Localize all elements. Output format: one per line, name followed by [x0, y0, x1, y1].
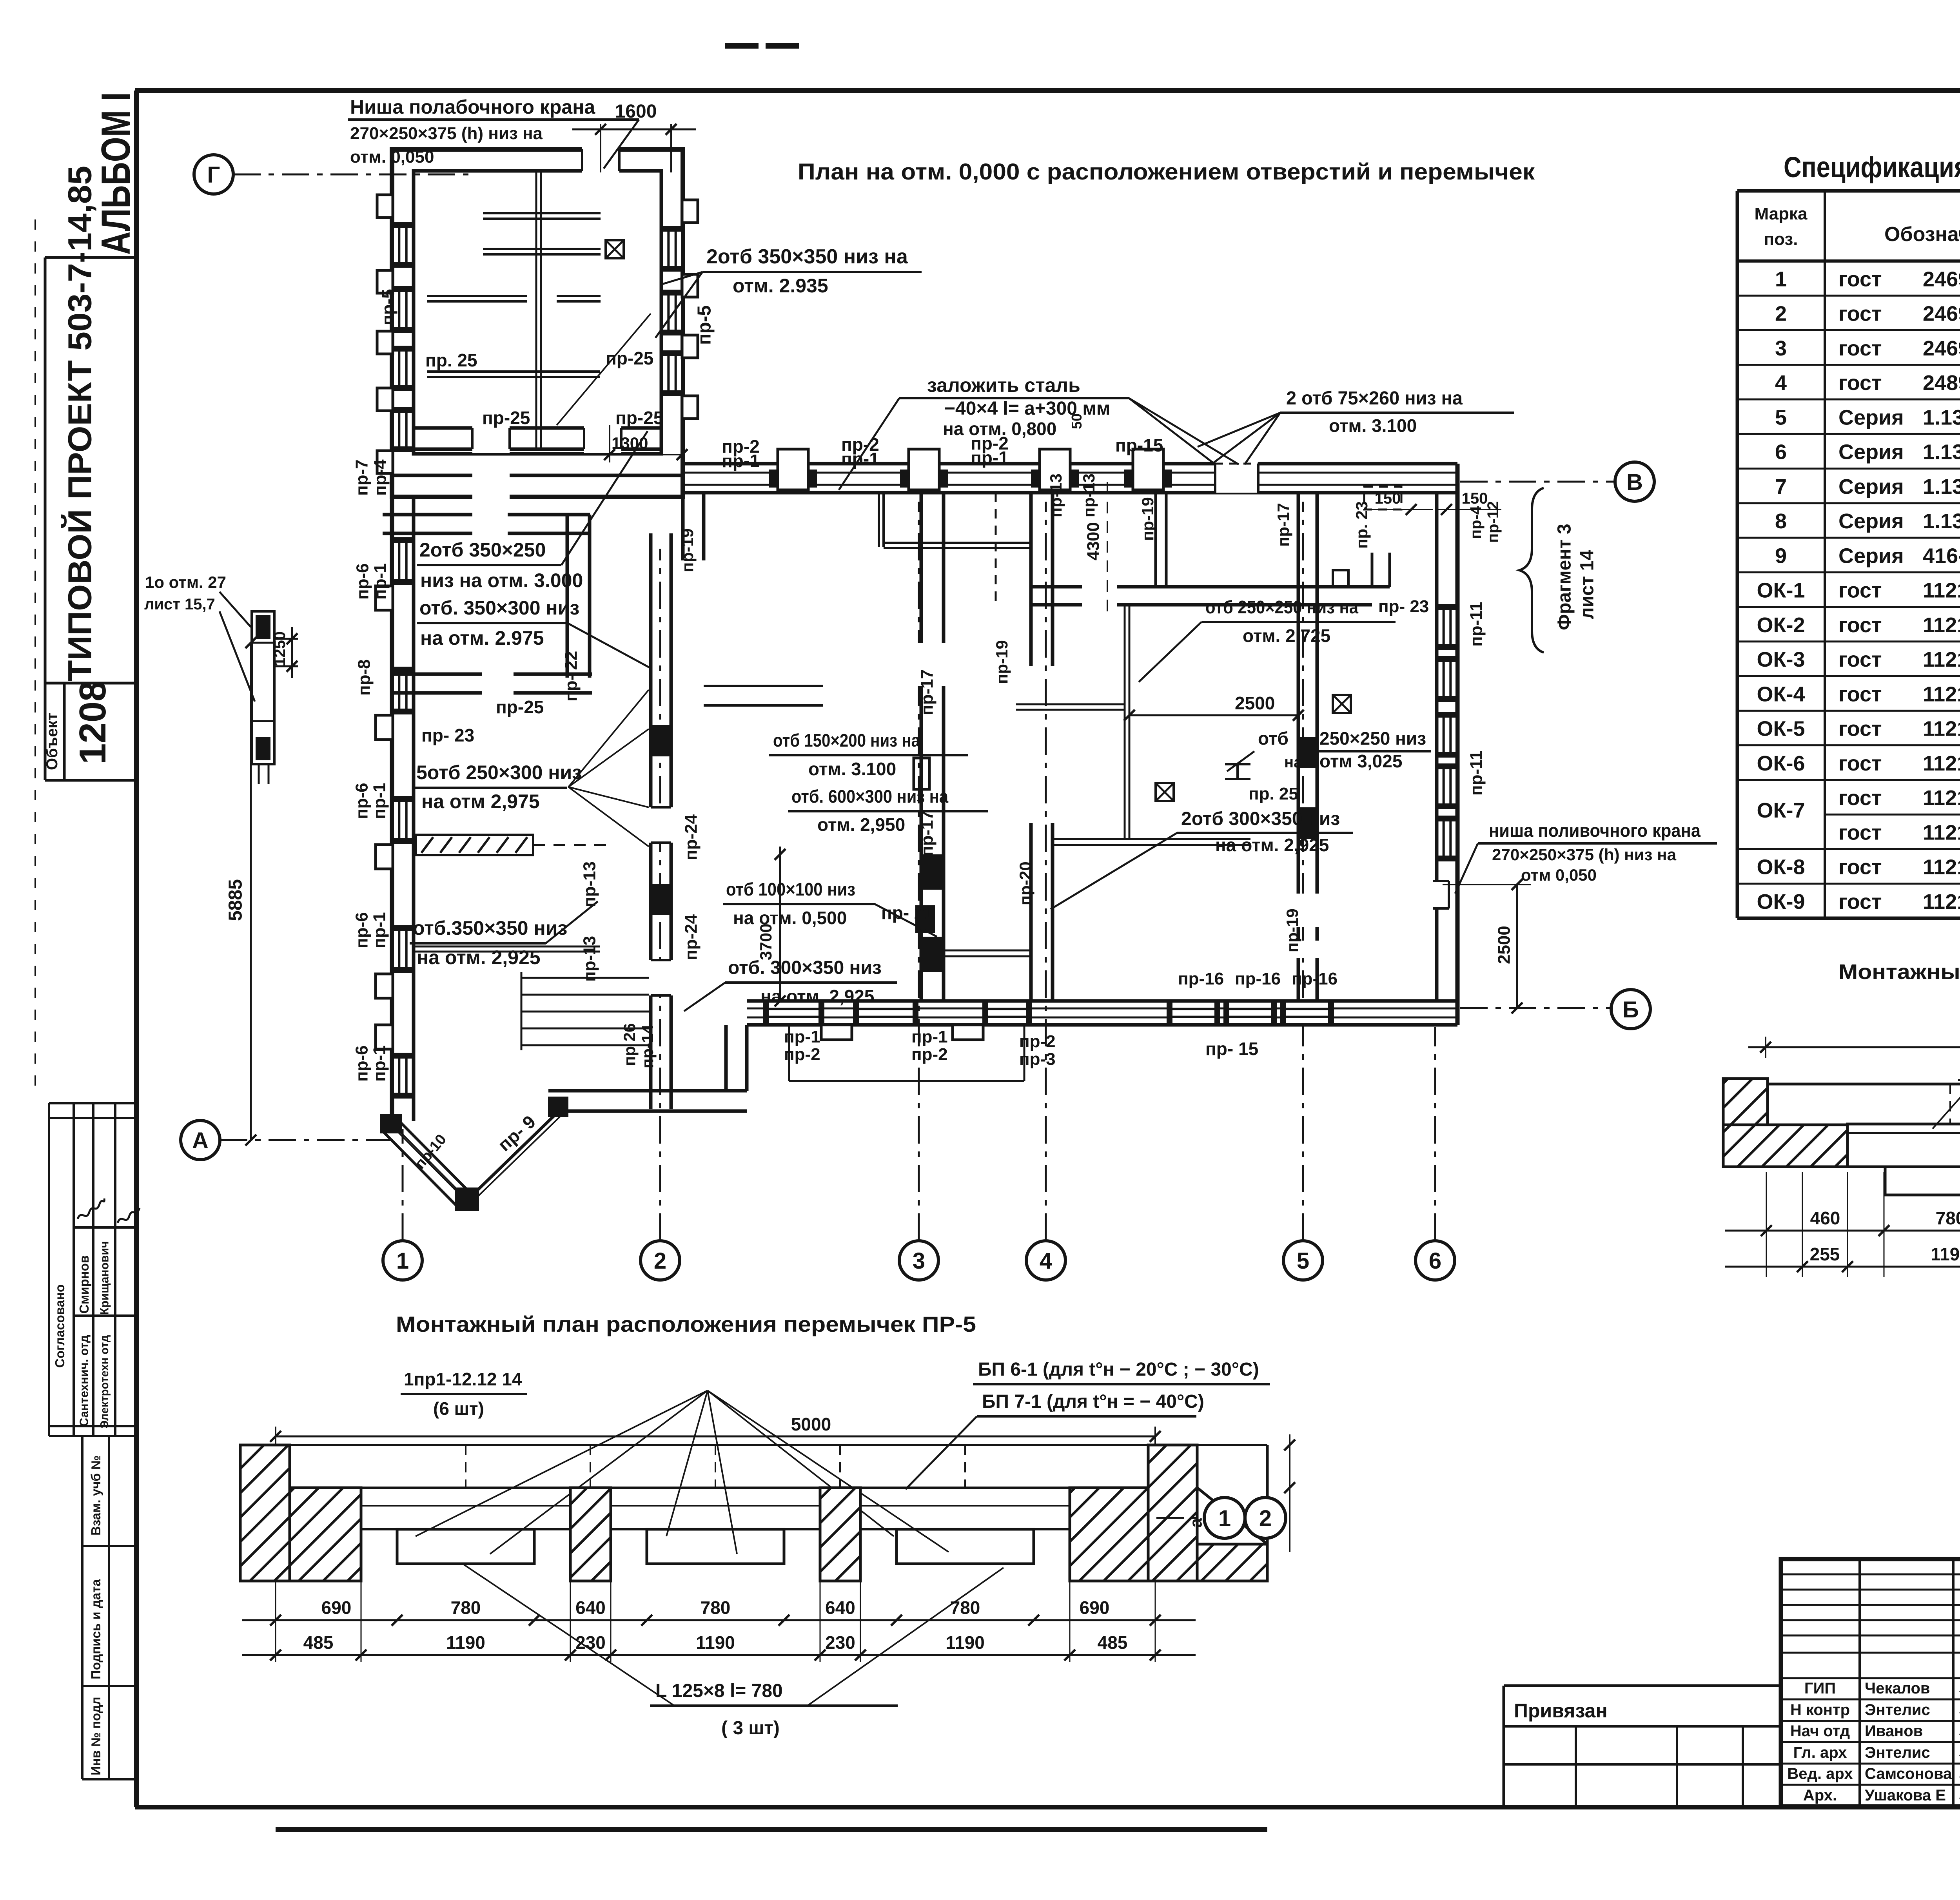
svg-text:пр-19: пр-19	[993, 640, 1011, 684]
svg-text:3: 3	[1775, 337, 1787, 360]
svg-text:пр-6: пр-6	[352, 912, 372, 948]
svg-text:230: 230	[825, 1632, 855, 1653]
svg-text:гост: гост	[1838, 267, 1882, 291]
svg-text:Монтажный план расположения: Монтажный план расположения перемычек ПР…	[396, 1312, 976, 1336]
svg-text:пр- 23: пр- 23	[421, 725, 474, 745]
svg-text:отм 3,025: отм 3,025	[1319, 751, 1402, 771]
svg-text:пр. 25: пр. 25	[425, 350, 477, 370]
svg-text:(6 шт): (6 шт)	[433, 1398, 484, 1419]
svg-text:Г: Г	[207, 162, 220, 188]
svg-text:пр-14: пр-14	[638, 1024, 657, 1068]
svg-text:Согласовано: Согласовано	[53, 1284, 67, 1368]
svg-text:пр-13: пр-13	[580, 936, 599, 982]
svg-text:780: 780	[950, 1597, 980, 1618]
svg-text:гост: гост	[1838, 613, 1882, 637]
svg-text:пр-4: пр-4	[371, 459, 390, 496]
svg-text:1600: 1600	[615, 101, 657, 122]
svg-text:ОК-4: ОК-4	[1757, 682, 1805, 706]
svg-text:пр-1: пр-1	[722, 451, 760, 471]
svg-text:отб 150×200 низ на: отб 150×200 низ на	[773, 730, 920, 751]
svg-text:пр-8: пр-8	[355, 659, 374, 696]
svg-text:на отм. 2.975: на отм. 2.975	[420, 627, 544, 649]
svg-text:Крищанович: Крищанович	[98, 1241, 111, 1315]
svg-text:640: 640	[825, 1597, 855, 1618]
svg-text:отм. 3.100: отм. 3.100	[1329, 415, 1417, 436]
svg-text:Ушакова Е: Ушакова Е	[1865, 1787, 1946, 1804]
svg-text:1.136 - 10: 1.136 - 10	[1923, 441, 1960, 464]
svg-text:пр-1: пр-1	[911, 1027, 948, 1046]
svg-text:Серия: Серия	[1838, 509, 1904, 533]
svg-text:пр-1: пр-1	[370, 1045, 389, 1082]
svg-text:7: 7	[1775, 475, 1787, 499]
svg-text:5отб 250×300 низ: 5отб 250×300 низ	[416, 761, 582, 783]
svg-text:4: 4	[1040, 1248, 1052, 1274]
svg-text:отб 250×250 низ на: отб 250×250 низ на	[1205, 597, 1358, 617]
svg-text:780: 780	[701, 1597, 731, 1618]
svg-text:лист 15,7: лист 15,7	[144, 596, 215, 613]
svg-text:4300: 4300	[1084, 522, 1103, 560]
svg-text:ГИП: ГИП	[1804, 1680, 1836, 1697]
svg-text:пр-16: пр-16	[1178, 969, 1224, 988]
svg-text:на отм. 0,800: на отм. 0,800	[943, 419, 1056, 439]
svg-text:1о отм. 27: 1о отм. 27	[145, 573, 226, 591]
svg-text:пр-19: пр-19	[678, 528, 697, 572]
svg-text:6: 6	[1429, 1248, 1441, 1274]
svg-text:пр-3: пр-3	[1019, 1050, 1056, 1069]
svg-text:План на отм. 0,000 с расположе: План на отм. 0,000 с расположением отвер…	[798, 159, 1535, 185]
svg-text:ОК-3: ОК-3	[1757, 648, 1805, 671]
svg-text:2: 2	[1775, 302, 1787, 326]
svg-text:1190: 1190	[446, 1632, 485, 1653]
svg-text:2: 2	[654, 1248, 666, 1274]
svg-text:пр-2: пр-2	[1019, 1032, 1056, 1051]
svg-text:ОК-1: ОК-1	[1757, 579, 1805, 602]
svg-text:Энтелис: Энтелис	[1865, 1701, 1930, 1719]
svg-text:5: 5	[1775, 406, 1787, 429]
svg-text:пр-17: пр-17	[918, 810, 937, 856]
svg-text:−40×4 l= a+300 мм: −40×4 l= a+300 мм	[944, 398, 1110, 419]
svg-text:пр-1: пр-1	[971, 448, 1009, 468]
svg-text:1190: 1190	[696, 1632, 735, 1653]
svg-text:пр-20: пр-20	[1016, 861, 1034, 905]
svg-text:поз.: поз.	[1764, 230, 1798, 249]
svg-text:гост: гост	[1838, 648, 1882, 671]
svg-text:Фрагмент 3: Фрагмент 3	[1554, 524, 1575, 630]
svg-text:пр-19: пр-19	[1283, 908, 1301, 952]
svg-text:780: 780	[1936, 1208, 1960, 1228]
svg-text:БП 7-1 (для t°н = − 40°С): БП 7-1 (для t°н = − 40°С)	[982, 1391, 1204, 1412]
svg-text:1190: 1190	[1931, 1244, 1960, 1264]
svg-text:Монтажный план расположения: Монтажный план расположения перемычек ПР…	[1838, 960, 1960, 984]
svg-text:1208: 1208	[72, 680, 114, 764]
svg-text:ОК-7: ОК-7	[1757, 799, 1805, 822]
svg-text:11214 - 78: 11214 - 78	[1923, 752, 1960, 775]
svg-text:11214 - 78: 11214 - 78	[1923, 717, 1960, 741]
svg-text:2: 2	[1259, 1506, 1272, 1531]
svg-text:пр. 23: пр. 23	[1352, 501, 1371, 549]
svg-text:пр- 21: пр- 21	[881, 903, 934, 923]
svg-text:пр-13: пр-13	[1047, 473, 1065, 517]
svg-text:пр-1: пр-1	[371, 563, 390, 600]
svg-text:пр-6: пр-6	[353, 563, 372, 600]
svg-text:Арх.: Арх.	[1803, 1787, 1837, 1804]
svg-text:отб. 300×350 низ: отб. 300×350 низ	[728, 957, 882, 978]
svg-text:пр-2: пр-2	[784, 1045, 820, 1064]
svg-text:4: 4	[1775, 371, 1787, 395]
svg-text:гост: гост	[1838, 890, 1882, 914]
svg-text:пр-24: пр-24	[682, 914, 701, 960]
svg-text:250×250 низ: 250×250 низ	[1319, 728, 1426, 749]
svg-text:5: 5	[1297, 1248, 1309, 1274]
svg-text:пр-11: пр-11	[1467, 602, 1486, 647]
svg-text:1.136 - 10: 1.136 - 10	[1923, 509, 1960, 533]
svg-text:отм. 2.935: отм. 2.935	[733, 275, 828, 297]
svg-text:пр- 23: пр- 23	[1378, 597, 1429, 616]
svg-text:гост: гост	[1838, 786, 1882, 810]
svg-text:ОК-2: ОК-2	[1757, 613, 1805, 637]
svg-text:3700: 3700	[757, 924, 775, 960]
svg-text:640: 640	[575, 1597, 606, 1618]
svg-text:отм. 3.100: отм. 3.100	[808, 759, 896, 779]
svg-text:отб. 600×300 низ на: отб. 600×300 низ на	[791, 786, 948, 807]
svg-text:24698 - 81: 24698 - 81	[1923, 267, 1960, 291]
svg-text:пр-1: пр-1	[784, 1027, 820, 1046]
svg-text:24698 - 81: 24698 - 81	[1923, 302, 1960, 326]
svg-text:1.136 - 10: 1.136 - 10	[1923, 406, 1960, 429]
svg-text:гост: гост	[1838, 682, 1882, 706]
svg-text:заложить сталь: заложить сталь	[927, 374, 1080, 396]
svg-text:2500: 2500	[1495, 926, 1514, 964]
svg-text:отб 100×100 низ: отб 100×100 низ	[726, 879, 855, 899]
svg-text:гост: гост	[1838, 856, 1882, 879]
svg-text:Нач отд: Нач отд	[1790, 1722, 1850, 1740]
svg-text:отб: отб	[1258, 728, 1289, 749]
svg-text:на отм. 2,925: на отм. 2,925	[1215, 835, 1329, 855]
svg-text:пр-5: пр-5	[694, 305, 715, 345]
svg-text:1: 1	[396, 1248, 409, 1274]
svg-text:ОК-6: ОК-6	[1757, 752, 1805, 775]
svg-text:690: 690	[1080, 1597, 1110, 1618]
svg-text:АЛЬБОМ I: АЛЬБОМ I	[93, 92, 139, 255]
svg-text:1300: 1300	[612, 434, 648, 452]
svg-text:460: 460	[1810, 1208, 1840, 1228]
svg-text:11214 - 78: 11214 - 78	[1923, 682, 1960, 706]
svg-text:отм. 0,050: отм. 0,050	[350, 147, 434, 167]
svg-text:270×250×375 (h) низ на: 270×250×375 (h) низ на	[350, 124, 543, 143]
svg-text:Гл. арх: Гл. арх	[1793, 1744, 1847, 1761]
svg-text:Спецификация элементов зап: Спецификация элементов заполнения проемо…	[1784, 151, 1960, 183]
svg-text:11214 - 78: 11214 - 78	[1923, 890, 1960, 914]
svg-text:2отб 350×350 низ на: 2отб 350×350 низ на	[706, 245, 908, 268]
svg-text:Иванов: Иванов	[1865, 1722, 1923, 1740]
svg-text:пр-2: пр-2	[911, 1045, 948, 1064]
svg-text:пр-13: пр-13	[1080, 473, 1098, 517]
svg-text:Серия: Серия	[1838, 544, 1904, 567]
svg-text:270×250×375 (h) низ на: 270×250×375 (h) низ на	[1492, 845, 1677, 864]
svg-text:отм 0,050: отм 0,050	[1521, 866, 1597, 884]
svg-text:пр-11: пр-11	[1467, 751, 1486, 796]
svg-text:пр 26: пр 26	[620, 1023, 639, 1066]
svg-text:5000: 5000	[791, 1414, 831, 1434]
svg-text:ОК-9: ОК-9	[1757, 890, 1805, 914]
svg-text:пр-6: пр-6	[352, 1045, 372, 1082]
svg-text:В: В	[1626, 470, 1643, 495]
svg-text:9: 9	[1775, 544, 1787, 567]
svg-text:гост: гост	[1838, 337, 1882, 360]
svg-text:Объект: Объект	[44, 713, 61, 770]
svg-text:Обозначение: Обозначение	[1884, 223, 1960, 246]
svg-text:Энтелис: Энтелис	[1865, 1744, 1930, 1761]
svg-text:5885: 5885	[225, 879, 246, 921]
svg-text:11214 - 78: 11214 - 78	[1923, 856, 1960, 879]
svg-text:на: на	[1284, 754, 1303, 771]
svg-text:416-0-1 ал.7: 416-0-1 ал.7	[1923, 544, 1960, 567]
svg-text:Марка: Марка	[1754, 204, 1808, 223]
svg-text:255: 255	[1810, 1244, 1840, 1264]
svg-text:пр-25: пр-25	[615, 408, 663, 428]
svg-text:отм. 2.725: отм. 2.725	[1243, 625, 1330, 646]
svg-text:пр-6: пр-6	[352, 783, 372, 819]
svg-text:пр-19: пр-19	[1138, 497, 1157, 541]
svg-text:485: 485	[1098, 1632, 1128, 1653]
svg-text:485: 485	[303, 1632, 334, 1653]
svg-text:пр-5: пр-5	[379, 289, 398, 325]
svg-text:на отм. 2,925: на отм. 2,925	[417, 946, 541, 968]
svg-text:24698 - 81: 24698 - 81	[1923, 337, 1960, 360]
svg-text:L 125×8 l= 780: L 125×8 l= 780	[655, 1681, 783, 1701]
svg-text:Чекалов: Чекалов	[1865, 1680, 1930, 1697]
svg-text:2отб 300×350 низ: 2отб 300×350 низ	[1181, 809, 1340, 829]
svg-text:11214 - 78: 11214 - 78	[1923, 821, 1960, 844]
svg-text:пр-1: пр-1	[370, 912, 389, 948]
svg-text:1.136 - 10: 1.136 - 10	[1923, 475, 1960, 499]
svg-text:1: 1	[1218, 1506, 1231, 1531]
svg-text:690: 690	[321, 1597, 352, 1618]
svg-text:Электротехн отд: Электротехн отд	[98, 1335, 111, 1429]
svg-text:Ниша полабочного крана: Ниша полабочного крана	[350, 96, 595, 118]
svg-text:Н контр: Н контр	[1790, 1701, 1850, 1719]
svg-text:( 3 шт): ( 3 шт)	[721, 1718, 780, 1739]
svg-text:пр-16: пр-16	[1235, 969, 1281, 988]
svg-text:6: 6	[1775, 441, 1787, 464]
svg-text:пр-25: пр-25	[482, 408, 530, 428]
svg-text:пр-7: пр-7	[352, 459, 372, 496]
svg-text:1пр1-12.12 14: 1пр1-12.12 14	[404, 1369, 522, 1389]
svg-text:гост: гост	[1838, 579, 1882, 602]
svg-text:пр-17: пр-17	[918, 669, 937, 715]
svg-text:Привязан: Привязан	[1514, 1700, 1608, 1722]
svg-text:низ на отм. 3.000: низ на отм. 3.000	[420, 569, 583, 591]
svg-text:гост: гост	[1838, 717, 1882, 741]
svg-text:11214 - 78: 11214 - 78	[1923, 613, 1960, 637]
svg-text:3: 3	[913, 1248, 925, 1274]
svg-text:гост: гост	[1838, 821, 1882, 844]
svg-text:отм. 2,950: отм. 2,950	[817, 814, 905, 835]
svg-text:а: а	[1187, 1518, 1206, 1528]
svg-text:Вед. арх: Вед. арх	[1787, 1765, 1853, 1782]
svg-text:Взам. учб №: Взам. учб №	[89, 1455, 103, 1536]
svg-text:2отб 350×250: 2отб 350×250	[419, 539, 546, 561]
svg-text:пр-4: пр-4	[1467, 506, 1485, 539]
svg-text:24898 - 81: 24898 - 81	[1923, 371, 1960, 395]
svg-text:Самсонова: Самсонова	[1865, 1765, 1952, 1782]
svg-text:Подпись и дата: Подпись и дата	[89, 1579, 103, 1679]
svg-text:11214 - 78: 11214 - 78	[1923, 786, 1960, 810]
svg-text:А: А	[192, 1128, 209, 1153]
svg-text:пр- 22: пр- 22	[562, 651, 581, 702]
svg-text:пр-16: пр-16	[1292, 969, 1338, 988]
svg-text:2500: 2500	[1235, 693, 1275, 713]
svg-text:Смирнов: Смирнов	[77, 1255, 91, 1314]
svg-text:Сантехнич. отд: Сантехнич. отд	[77, 1335, 91, 1427]
svg-text:2 отб 75×260 низ на: 2 отб 75×260 низ на	[1286, 388, 1463, 409]
svg-text:ниша поливочного крана: ниша поливочного крана	[1489, 820, 1700, 841]
svg-text:на отм. 0,500: на отм. 0,500	[733, 908, 847, 928]
svg-text:1: 1	[1775, 267, 1787, 291]
svg-text:150: 150	[1462, 490, 1488, 507]
svg-text:150: 150	[1375, 490, 1401, 507]
svg-text:пр. 25: пр. 25	[1249, 784, 1298, 803]
svg-text:пр-25: пр-25	[496, 697, 544, 717]
svg-text:лист 14: лист 14	[1577, 550, 1598, 619]
svg-text:Серия: Серия	[1838, 441, 1904, 464]
svg-text:11214 - 78: 11214 - 78	[1923, 579, 1960, 602]
svg-text:Серия: Серия	[1838, 406, 1904, 429]
svg-text:гост: гост	[1838, 752, 1882, 775]
svg-text:пр-24: пр-24	[682, 814, 701, 860]
svg-text:отб.350×350 низ: отб.350×350 низ	[413, 917, 567, 939]
svg-text:пр-12: пр-12	[1485, 501, 1502, 543]
svg-text:11214 - 78: 11214 - 78	[1923, 648, 1960, 671]
svg-text:Инв № подл: Инв № подл	[89, 1697, 103, 1775]
svg-text:БП 6-1 (для t°н − 20°С ; − 30: БП 6-1 (для t°н − 20°С ; − 30°С)	[978, 1359, 1259, 1380]
svg-text:ОК-8: ОК-8	[1757, 856, 1805, 879]
svg-text:гост: гост	[1838, 371, 1882, 395]
svg-text:ТИПОВОЙ ПРОЕКТ 503-7-14,85: ТИПОВОЙ ПРОЕКТ 503-7-14,85	[61, 166, 98, 681]
svg-text:пр-1: пр-1	[370, 783, 389, 819]
svg-text:пр-13: пр-13	[580, 861, 599, 907]
svg-text:8: 8	[1775, 509, 1787, 533]
svg-text:1190: 1190	[946, 1632, 985, 1653]
svg-text:пр- 15: пр- 15	[1205, 1039, 1258, 1059]
svg-text:отб. 350×300 низ: отб. 350×300 низ	[419, 597, 579, 619]
svg-text:пр-15: пр-15	[1115, 435, 1163, 455]
svg-text:1250: 1250	[271, 631, 289, 666]
svg-text:пр-17: пр-17	[1274, 503, 1292, 547]
svg-text:780: 780	[451, 1597, 481, 1618]
svg-text:Б: Б	[1622, 997, 1639, 1023]
svg-text:на отм 2,975: на отм 2,975	[421, 790, 540, 812]
svg-text:гост: гост	[1838, 302, 1882, 326]
svg-text:Серия: Серия	[1838, 475, 1904, 499]
svg-text:ОК-5: ОК-5	[1757, 717, 1805, 741]
